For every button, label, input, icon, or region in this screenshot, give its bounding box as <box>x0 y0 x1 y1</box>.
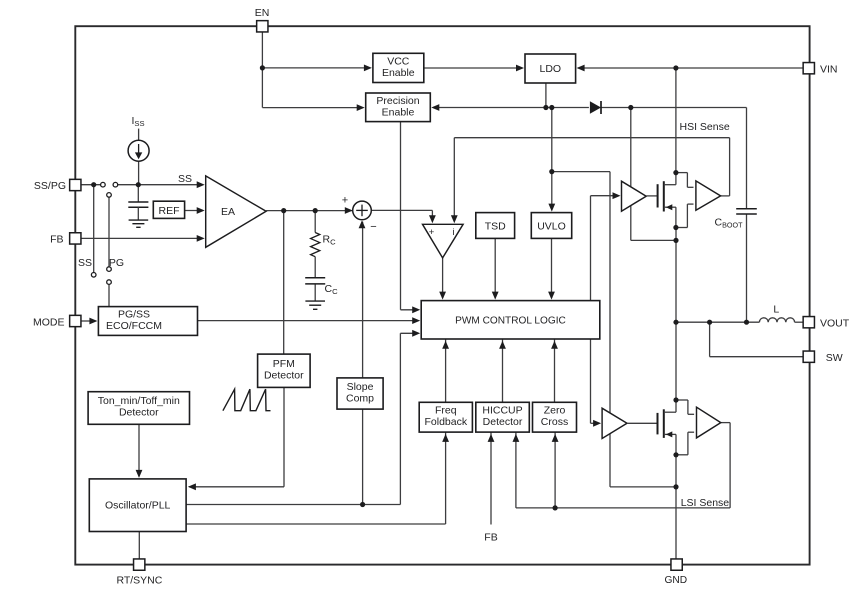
svg-text:VOUT: VOUT <box>820 318 850 330</box>
wire freq foldback to PWM logic <box>445 339 447 402</box>
svg-text:SS/PG: SS/PG <box>34 180 66 192</box>
svg-text:−: − <box>370 221 376 233</box>
wire hiccup detector to PWM logic <box>502 339 504 402</box>
node VCC low-side branch <box>549 169 554 174</box>
wire oscillator to freq foldback <box>186 523 446 525</box>
wire VCC Enable to LDO <box>424 67 523 69</box>
block HICCUP Detector <box>476 402 530 432</box>
diode D1 boot diode <box>590 101 601 114</box>
svg-text:Enable: Enable <box>382 67 415 79</box>
pin GND <box>671 559 682 570</box>
wire summing node to PWM comparator + input <box>371 209 432 211</box>
pin VOUT <box>803 317 814 328</box>
svg-text:VIN: VIN <box>820 63 838 75</box>
block TSD <box>476 213 515 239</box>
svg-text:HSI Sense: HSI Sense <box>680 121 730 133</box>
svg-text:L: L <box>773 304 779 316</box>
comparator U4 HSI sense amp <box>696 181 721 210</box>
svg-text:SS: SS <box>178 173 192 185</box>
block PFM Detector <box>258 354 311 387</box>
node EN branch <box>260 65 265 70</box>
block Slope Comp <box>337 378 383 409</box>
node EA output <box>281 208 286 213</box>
wire Iss source into soft-start node <box>138 129 140 141</box>
wire PG switch branch lower into PG/SS block <box>108 284 110 306</box>
wire gate-drive rail to HSI and LSI drivers <box>590 196 592 424</box>
wire FB input to hiccup detector <box>490 432 492 524</box>
pin SW <box>803 351 814 362</box>
svg-text:Foldback: Foldback <box>424 416 467 428</box>
svg-text:PG/SS: PG/SS <box>118 308 150 320</box>
wire compensation network Rc Cc <box>314 211 316 233</box>
wire slope comp down to oscillator line <box>362 409 364 504</box>
node UVLO branch <box>549 105 554 110</box>
svg-text:FB: FB <box>50 234 63 246</box>
svg-text:i: i <box>452 227 454 238</box>
transistor Q1 high-side NFET <box>646 195 657 197</box>
wire LDO output down to VCC node <box>545 83 547 108</box>
wire VIN to LDO <box>578 67 803 69</box>
wire FB pin to EA - input <box>81 237 203 239</box>
svg-text:+: + <box>342 195 348 207</box>
svg-text:VCC: VCC <box>387 55 410 67</box>
node HS drain <box>673 170 678 175</box>
svg-text:EN: EN <box>255 7 270 19</box>
wire PG switch branch upper <box>108 197 110 267</box>
wire EA output to summing node <box>266 210 353 212</box>
wire EN to Precision Enable <box>262 107 363 109</box>
comparator U2 PWM comparator <box>423 224 464 258</box>
ground under Cc <box>305 300 325 302</box>
svg-text:Detector: Detector <box>119 407 159 419</box>
wire Ton min detector to oscillator <box>138 424 140 476</box>
op-amp EA error amplifier <box>206 176 266 247</box>
block Oscillator/PLL <box>89 479 186 532</box>
svg-text:HICCUP: HICCUP <box>482 405 522 417</box>
wire HSI sense comparator output feedback to PWM comparator i input <box>721 195 730 197</box>
wire TSD to PWM logic <box>494 238 496 297</box>
node LS rail return <box>673 484 678 489</box>
block Zero Cross <box>533 402 577 432</box>
svg-text:Cross: Cross <box>541 416 568 428</box>
node compensation branch <box>313 208 318 213</box>
svg-text:Enable: Enable <box>382 106 415 118</box>
transistor Q2 low-side NFET <box>627 422 658 424</box>
buffer U3 high-side gate driver <box>622 181 647 211</box>
node LS drain <box>673 397 678 402</box>
svg-text:EA: EA <box>221 206 235 218</box>
pin RT/SYNC <box>134 559 145 570</box>
node boot diode output <box>628 105 633 110</box>
wire oscillator to PWM logic <box>186 504 400 506</box>
node LDO output <box>543 105 548 110</box>
wire VIN rail down to high-side FET drain <box>675 68 677 173</box>
svg-text:UVLO: UVLO <box>537 220 566 232</box>
svg-text:Slope: Slope <box>347 381 374 393</box>
wire soft-start node to EA + input <box>138 184 203 186</box>
node VIN branch <box>673 65 678 70</box>
wire MODE pin to PG/SS block <box>81 320 96 322</box>
svg-text:SS: SS <box>78 257 92 269</box>
svg-text:PG: PG <box>109 257 124 269</box>
resistor Rc <box>311 233 320 257</box>
svg-text:TSD: TSD <box>485 220 506 232</box>
capacitor CBOOT <box>736 208 757 210</box>
wire slope comp up to summing - input <box>362 222 364 378</box>
wire EN to VCC Enable <box>262 67 370 69</box>
block PWM CONTROL LOGIC U10 <box>421 301 600 339</box>
wire SS switch branch <box>93 185 95 273</box>
wire VCC node down to UVLO <box>551 108 553 210</box>
wire VCC/boot rail with diode to CBOOT <box>433 107 589 109</box>
node SW boot return <box>673 238 678 243</box>
node SW pin branch <box>707 320 712 325</box>
capacitor Cc <box>305 277 325 279</box>
svg-text:ECO/FCCM: ECO/FCCM <box>106 320 162 332</box>
wire EN pin to enable branch node <box>261 32 263 108</box>
svg-text:Oscillator/PLL: Oscillator/PLL <box>105 500 171 512</box>
node SS/PG switch <box>91 182 96 187</box>
pin VIN <box>803 63 814 74</box>
wire LSI sense taps <box>676 399 688 401</box>
wire SW node to inductor and VOUT pin <box>676 321 759 323</box>
arrowheads of signal flow <box>364 65 372 72</box>
wire EA output down to PFM detector <box>283 211 285 355</box>
wire boot junction down to SW node <box>630 108 632 241</box>
block REF reference <box>153 201 184 218</box>
svg-text:Comp: Comp <box>346 392 374 404</box>
inductor L <box>759 318 794 322</box>
wire LSI sense to hiccup and zero cross <box>721 422 730 424</box>
block PG/SS ECO/FCCM <box>98 307 197 336</box>
wire SW node branch to SW pin <box>709 322 711 357</box>
svg-text:RT/SYNC: RT/SYNC <box>116 574 162 586</box>
block LDO <box>525 54 576 83</box>
svg-text:LDO: LDO <box>540 63 562 75</box>
block Precision Enable <box>366 93 431 122</box>
svg-text:GND: GND <box>664 575 687 586</box>
wire PFM detector to oscillator <box>283 387 285 486</box>
wire PG/SS block to PWM logic <box>198 320 419 322</box>
sawtooth PFM waveform symbol <box>223 389 271 411</box>
chip boundary border <box>75 26 809 564</box>
node zero cross feed <box>553 505 558 510</box>
svg-text:Precision: Precision <box>376 95 419 107</box>
block Freq Foldback <box>419 402 472 432</box>
svg-text:FB: FB <box>484 532 497 544</box>
block Ton_min/Toff_min Detector <box>88 392 189 425</box>
svg-text:Detector: Detector <box>264 370 304 382</box>
block VCC Enable <box>373 53 424 82</box>
svg-text:Ton_min/Toff_min: Ton_min/Toff_min <box>98 395 180 407</box>
wire PWM comparator output to PWM logic <box>442 258 444 298</box>
pin MODE <box>70 315 81 326</box>
svg-text:+: + <box>429 227 435 238</box>
wire soft-start capacitor to ground <box>137 207 139 220</box>
current source Iss <box>128 140 149 161</box>
wire CBOOT bottom to SW node <box>746 214 748 323</box>
wire UVLO to PWM logic <box>551 238 553 297</box>
summing junction <box>353 201 372 220</box>
capacitor soft-start C1 <box>128 201 148 203</box>
node slope comp feed <box>360 502 365 507</box>
comparator U6 LSI sense amp <box>697 407 721 438</box>
wire oscillator to RT/SYNC pin <box>138 532 140 560</box>
wire HSI sense taps <box>676 172 688 174</box>
wire Precision Enable down to PWM logic <box>400 122 402 310</box>
pin FB <box>70 233 81 244</box>
wire soft-start node to capacitor <box>137 185 139 202</box>
ground under soft-start capacitor <box>129 219 149 221</box>
wire SS/PG pin to switch <box>81 184 101 186</box>
wire REF to EA input <box>185 210 203 212</box>
block UVLO <box>531 213 571 239</box>
svg-text:REF: REF <box>159 205 180 217</box>
switch S1 SS/PG select contacts <box>101 182 106 187</box>
node SW main <box>673 320 678 325</box>
svg-text:Detector: Detector <box>483 416 523 428</box>
node soft-start SS <box>136 182 141 187</box>
wire VCC branch to low-side rail <box>552 171 610 173</box>
wire SW column: HS source to LS drain and GND <box>675 228 677 323</box>
svg-text:PFM: PFM <box>273 358 295 370</box>
node HS source sense <box>673 225 678 230</box>
svg-text:Zero: Zero <box>544 405 566 417</box>
wire zero cross to PWM logic <box>554 339 556 402</box>
svg-text:Freq: Freq <box>435 405 457 417</box>
buffer U5 low-side gate driver <box>602 408 627 438</box>
node CBOOT bottom <box>744 320 749 325</box>
pin EN <box>257 21 268 32</box>
wire switch to soft-start node <box>118 184 139 186</box>
node LS source sense <box>673 452 678 457</box>
svg-text:MODE: MODE <box>33 317 65 329</box>
svg-text:PWM CONTROL LOGIC: PWM CONTROL LOGIC <box>455 316 566 327</box>
svg-text:LSI Sense: LSI Sense <box>681 497 730 509</box>
pin SS/PG <box>70 179 81 190</box>
svg-text:SW: SW <box>826 352 843 364</box>
